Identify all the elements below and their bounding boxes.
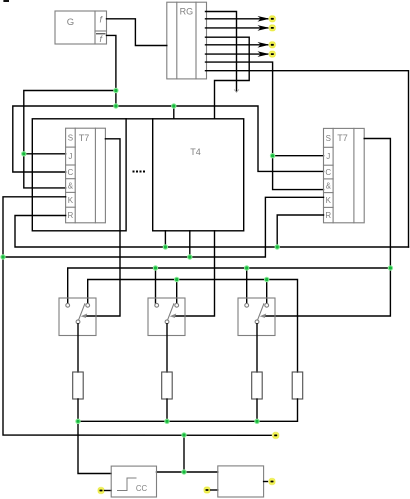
counter output box xyxy=(218,466,264,497)
node busB left xyxy=(0,254,5,259)
svg-text:T4: T4 xyxy=(190,147,201,157)
node busE r3 xyxy=(254,419,259,424)
node busE r2 xyxy=(164,419,169,424)
resistor R2 xyxy=(162,372,173,399)
svg-text:R: R xyxy=(325,211,331,220)
switch SA1 xyxy=(59,298,96,336)
svg-text:J: J xyxy=(326,152,330,161)
terminal CC lower input xyxy=(97,487,105,495)
pulse shaper CC box xyxy=(111,466,156,497)
terminal out 3 xyxy=(268,24,276,32)
wire RG out 6 xyxy=(206,53,269,55)
wire T4 bottom port 1 xyxy=(164,231,166,247)
wire terminal to CC xyxy=(105,490,112,492)
wire left T7 output to switch 1 control xyxy=(85,139,121,316)
wire bus D drop switch 2 xyxy=(176,280,178,304)
overline of f-bar xyxy=(97,33,106,35)
resistor R1 xyxy=(73,372,84,399)
wire switch 2 bottom to resistor 2 xyxy=(166,324,168,372)
terminal counter output xyxy=(268,478,276,486)
node busF branch xyxy=(181,432,186,437)
generator G box xyxy=(55,11,107,44)
wire clock line C inputs xyxy=(13,106,324,172)
counter chain enclosure xyxy=(32,119,126,231)
wire resistor 1 down to CC input xyxy=(78,399,111,474)
wire switch 1 bottom to resistor 1 xyxy=(77,324,79,372)
register RG box xyxy=(167,2,207,79)
node busC sw3 xyxy=(244,265,249,270)
node busC sw2 xyxy=(153,265,158,270)
svg-text:f: f xyxy=(100,34,104,44)
node busA R right xyxy=(275,244,280,249)
wire RG out 5 xyxy=(206,44,269,46)
svg-text:C: C xyxy=(325,168,331,177)
node fbar-clock xyxy=(113,103,118,108)
wire f-bar branch to J and amp inputs xyxy=(24,91,116,188)
node J left xyxy=(21,151,26,156)
wire T4 top input 1 xyxy=(173,106,175,119)
svg-text:&: & xyxy=(68,182,74,191)
node busC right xyxy=(388,265,393,270)
terminal bus F xyxy=(272,432,280,440)
svg-text:K: K xyxy=(326,196,332,205)
wire J input left T7 xyxy=(24,153,66,155)
stray corner mark xyxy=(3,0,9,2)
wire bus A with left T7 R input xyxy=(15,216,409,248)
wire bus B with right T7 K input xyxy=(3,197,324,257)
node busA T4 xyxy=(163,244,168,249)
wire RG out 1 dead end xyxy=(206,12,237,91)
node fbar-J branch xyxy=(113,88,118,93)
svg-text:S: S xyxy=(68,134,73,143)
switch SA2 xyxy=(148,298,185,336)
open end arrow xyxy=(234,90,238,93)
arrow out 3 xyxy=(258,25,270,31)
arrow out 6 xyxy=(258,51,270,57)
resistor R3 xyxy=(252,372,263,399)
wire resistor 2 to bus E xyxy=(166,399,168,421)
wire bus C drop switch 2 xyxy=(155,268,157,303)
node busE r1 xyxy=(75,419,80,424)
node clock-T4 xyxy=(171,103,176,108)
wire CC output to box xyxy=(157,471,218,473)
svg-text:K: K xyxy=(68,196,74,205)
wire right T7 output to switch 3 control xyxy=(264,139,391,317)
node CC out xyxy=(181,469,186,474)
dots between stages xyxy=(133,171,146,173)
svg-text:&: & xyxy=(326,182,332,191)
terminal counter lower input xyxy=(203,486,211,494)
pin labels left T7 xyxy=(68,134,74,220)
pin labels right T7 xyxy=(325,134,331,220)
node busD sw3 xyxy=(264,277,269,282)
wire right T7 R input to bus A xyxy=(277,215,323,247)
wire switch 3 bottom to resistor 3 xyxy=(256,324,258,372)
terminal out 6 xyxy=(268,50,276,58)
node busB T4 xyxy=(187,254,192,259)
svg-text:RG: RG xyxy=(180,7,194,17)
terminal out 5 xyxy=(268,41,276,49)
wire bus E from resistor 4 xyxy=(78,399,298,421)
wire RG out 2 xyxy=(206,18,269,20)
wire J input right T7 xyxy=(273,155,324,157)
wire RG out 4 to T4 top input 2 xyxy=(206,37,250,119)
wire T4 bottom port 3 to switch 2 control xyxy=(174,231,215,316)
counter T4 box xyxy=(153,119,244,231)
arrow out 2 xyxy=(258,16,270,22)
wire left T7 K input to left drop xyxy=(3,197,66,257)
wire terminal to counter box xyxy=(211,489,218,491)
wire T4 bottom port 2 xyxy=(189,231,191,257)
arrow out 5 xyxy=(258,42,270,48)
wire f-bar vertical xyxy=(107,35,116,106)
svg-text:f: f xyxy=(100,15,104,25)
wire RG out 3 xyxy=(206,27,269,29)
wire RG out 7 to J and amp of right T7 xyxy=(206,62,324,190)
wire bus D to switch right terminals and resistor 4 xyxy=(88,280,298,373)
wire bus C to switch left terminals xyxy=(68,268,391,303)
svg-text:T7: T7 xyxy=(337,133,348,143)
flip-flop T7 left box xyxy=(66,128,106,223)
wire bus D drop switch 3 xyxy=(266,280,268,304)
svg-text:CC: CC xyxy=(136,484,148,493)
wire f to RG input xyxy=(107,19,167,46)
wire counter box output xyxy=(264,481,269,483)
svg-text:G: G xyxy=(67,17,74,28)
svg-text:C: C xyxy=(68,168,74,177)
svg-text:R: R xyxy=(68,211,74,220)
wire RG out 8 to bus A right end xyxy=(206,71,409,247)
switch SA3 xyxy=(238,298,275,336)
node J right xyxy=(270,153,275,158)
terminal out 2 xyxy=(268,15,276,23)
resistor R4 xyxy=(292,372,303,399)
flip-flop T7 right box xyxy=(324,128,365,222)
wire bus F branch down xyxy=(183,435,185,472)
wire resistor 3 to bus E xyxy=(256,399,258,421)
svg-text:S: S xyxy=(326,134,331,143)
wire left drop to bus F and terminal xyxy=(3,257,273,435)
wire bus C drop switch 3 xyxy=(246,268,248,303)
node busD sw2 xyxy=(174,277,179,282)
svg-text:T7: T7 xyxy=(79,133,90,143)
wire enclosure to T4 xyxy=(126,118,153,120)
svg-text:J: J xyxy=(68,152,72,161)
